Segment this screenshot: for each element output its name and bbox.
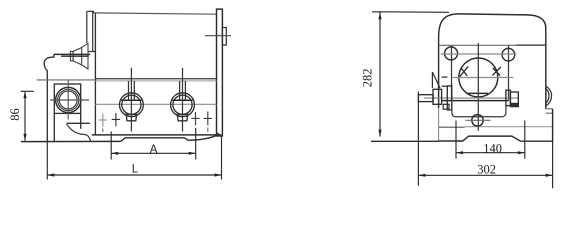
dimension 302 arrows — [418, 174, 552, 177]
body bottom line — [92, 134, 221, 136]
bolt cross mark 4 — [204, 112, 212, 126]
flange break curve — [67, 124, 91, 142]
dimension 140 line — [456, 152, 525, 154]
dimension 302 extension lines — [418, 92, 552, 189]
svg-text:140: 140 — [483, 142, 502, 156]
lower body outline — [452, 101, 506, 117]
relief valve horn — [70, 43, 88, 69]
dimension 140 extension lines — [456, 121, 525, 159]
shaft collar — [433, 89, 442, 104]
front flange left edge with lug — [44, 54, 54, 141]
base top line — [439, 126, 465, 128]
port P2 stem — [180, 81, 186, 100]
bolt cross mark 1 — [99, 114, 107, 127]
cover plate edges — [452, 45, 509, 100]
port P2 circle — [171, 93, 195, 117]
port P1 nut — [126, 114, 136, 120]
relief valve centerline — [61, 55, 89, 57]
flange mid horizontal line — [37, 79, 96, 81]
base right ledge lines — [546, 109, 553, 113]
port P1 circle — [119, 93, 143, 117]
body outline — [439, 14, 546, 109]
cover plate top line — [439, 44, 517, 46]
body horizontal centerline — [95, 103, 216, 105]
port P2 nut — [177, 114, 187, 120]
shaft circles — [56, 87, 81, 112]
base drain centerline — [466, 119, 491, 121]
svg-text:282: 282 — [360, 69, 374, 88]
base top line right part — [465, 126, 553, 128]
rear boss tab — [222, 28, 226, 46]
port deck thin line — [95, 80, 216, 82]
dimension A arrows — [111, 152, 196, 155]
body left edge lower gray — [438, 108, 440, 141]
dimension 140 arrows — [456, 151, 525, 154]
dimension A line — [111, 152, 196, 154]
front flange top line — [54, 53, 90, 55]
bore cross mark right — [492, 67, 501, 76]
bearing box — [54, 84, 80, 113]
dimension 302 line — [418, 174, 552, 176]
bore horizontal centerline — [453, 77, 514, 79]
bolt holes centerline — [441, 53, 517, 55]
bolt cross mark 4 tick — [207, 128, 209, 133]
svg-text:L: L — [132, 163, 139, 175]
svg-text:86: 86 — [8, 108, 22, 121]
dimension 282 arrows — [378, 12, 381, 136]
dimension 282 line — [372, 12, 449, 137]
right plug body — [510, 92, 518, 107]
right plug inner flange — [506, 90, 511, 105]
bolt hole circle right — [502, 48, 515, 61]
front flange bottom — [53, 113, 55, 141]
rear boss centerline — [205, 35, 231, 37]
flange step lines — [67, 113, 90, 128]
port P2 flange bar — [172, 99, 192, 101]
dimension 86 line — [21, 91, 34, 141]
svg-text:302: 302 — [477, 163, 496, 177]
foot pad — [121, 135, 217, 141]
bearing cap step — [443, 104, 449, 109]
port P1 flange bar — [121, 99, 141, 101]
bearing cap bar — [447, 86, 452, 110]
svg-text:A: A — [150, 144, 158, 156]
port deck line — [95, 78, 216, 80]
port P1 inner circle — [122, 95, 141, 114]
cover plate bottom line — [442, 100, 509, 102]
ground line under right view — [371, 140, 439, 142]
shaft centerlines — [50, 81, 89, 120]
body front cap — [87, 11, 96, 51]
rear cover plate — [217, 9, 223, 136]
shaft horizontal centerline — [424, 97, 518, 99]
bolt cross mark 2 — [112, 113, 120, 126]
bore chord line — [467, 92, 489, 94]
dimension L line — [47, 174, 221, 176]
left boss lines — [442, 77, 448, 86]
base feet outline — [439, 109, 553, 141]
port P1 centerline — [130, 68, 132, 132]
bore cross mark left — [460, 66, 468, 76]
port P2 centerline — [182, 68, 184, 132]
main bore circle — [459, 58, 498, 97]
side ear lug — [546, 86, 552, 106]
body top line — [93, 13, 216, 14]
vertical centerline — [477, 43, 479, 131]
dimension L extension lines — [47, 136, 221, 179]
base drain circle — [472, 115, 483, 126]
base bottom line left — [21, 140, 121, 142]
rear cover bottom diagonal — [217, 132, 222, 136]
port P2 inner circle — [173, 95, 192, 114]
gusset wedge — [432, 72, 440, 88]
drive shaft — [418, 95, 433, 102]
dimension A extension lines — [111, 128, 196, 160]
dimension L arrows — [47, 173, 221, 176]
bolt cross mark 1 tick — [102, 129, 104, 133]
bolt hole circle left — [445, 47, 458, 60]
dimension 86 arrows — [23, 91, 26, 141]
right plug dark band — [511, 103, 519, 107]
bolt cross mark 3 — [191, 112, 199, 125]
cover plate top line dark segment — [516, 44, 546, 46]
port P1 stem — [129, 81, 135, 100]
body front inner edge — [94, 13, 96, 135]
